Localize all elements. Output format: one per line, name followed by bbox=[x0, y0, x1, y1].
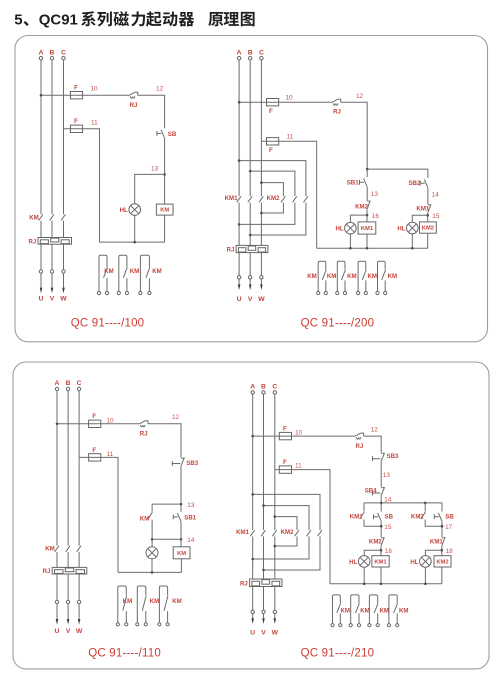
svg-text:U: U bbox=[250, 630, 255, 637]
wire pole to terminal W bbox=[63, 244, 65, 287]
wire pole below KM1 contact x=252.7 (BR) bbox=[252, 536, 254, 579]
terminal circle V (BR) bbox=[262, 610, 265, 613]
wire pole below KM1 contact x=263.5 (BR) bbox=[263, 536, 265, 579]
svg-text:KM: KM bbox=[172, 598, 181, 605]
wire rejoin self-hold branch bbox=[152, 538, 181, 540]
start pushbutton SB1 (NO) bbox=[177, 513, 181, 521]
svg-text:14: 14 bbox=[187, 537, 195, 544]
auxiliary contact KM (NO) at 117.8 (BL) bbox=[118, 586, 127, 623]
node 13 junction bbox=[180, 503, 183, 506]
terminal circle U bbox=[39, 270, 42, 273]
svg-text:5: 5 bbox=[14, 12, 22, 29]
svg-text:KM: KM bbox=[327, 273, 336, 280]
arrow to motor V bbox=[51, 288, 54, 294]
wire node 13 (TR) bbox=[366, 187, 368, 201]
svg-text:F: F bbox=[92, 447, 96, 454]
interlock contact KM2 (NC, BR left) bbox=[381, 538, 384, 546]
wire SB1 upper bbox=[366, 169, 368, 177]
wire rejoin left pair node 15 bbox=[364, 520, 381, 538]
svg-text:KM1: KM1 bbox=[416, 205, 429, 212]
crossover wire B to KM2 middle pole (BR) bbox=[264, 506, 310, 530]
svg-text:RJ: RJ bbox=[29, 238, 37, 245]
wire phase B vertical (BL) bbox=[67, 391, 69, 546]
svg-text:15: 15 bbox=[384, 524, 392, 531]
svg-text:KM: KM bbox=[130, 268, 139, 275]
arrow to motor U bbox=[40, 288, 43, 294]
wire branch to lamp HL (right) bbox=[412, 215, 427, 222]
arrow to motor U (BL) bbox=[56, 619, 59, 625]
svg-text:12: 12 bbox=[172, 414, 180, 421]
svg-text:A: A bbox=[250, 384, 255, 391]
svg-text:15: 15 bbox=[432, 213, 440, 220]
wire to node 16 bbox=[380, 546, 382, 556]
contactor KM1 main contacts bbox=[237, 196, 241, 202]
stop pushbutton SB4 (NC, BR) bbox=[381, 488, 384, 496]
wire branch to lamp HL (left) bbox=[350, 215, 367, 222]
svg-text:KM: KM bbox=[160, 208, 169, 214]
terminal circle W (BL) bbox=[77, 600, 80, 603]
wire 11 (BR) from C bbox=[275, 470, 330, 584]
wire to node 16 bbox=[366, 210, 368, 222]
svg-text:A: A bbox=[55, 380, 60, 387]
svg-text:KM: KM bbox=[140, 515, 149, 522]
svg-text:SB1: SB1 bbox=[184, 515, 196, 522]
svg-text:F: F bbox=[269, 147, 273, 154]
panel frame 1 bbox=[15, 36, 488, 342]
wire bottom rail (TL control) bbox=[100, 241, 165, 243]
panel frame 2 bbox=[13, 362, 489, 669]
svg-text:V: V bbox=[248, 296, 253, 303]
wire pole below KM1 contact x=261.4 bbox=[260, 203, 262, 246]
node 16 junction bbox=[366, 214, 369, 217]
arrow to motor W (BL) bbox=[78, 619, 81, 625]
svg-text:KM: KM bbox=[360, 608, 369, 615]
control top rail (TR) bbox=[367, 169, 428, 178]
svg-text:F: F bbox=[283, 459, 287, 466]
wire 11 horizontal from C bbox=[64, 129, 100, 242]
svg-text:SB4: SB4 bbox=[365, 488, 377, 495]
terminal circle W (BR) bbox=[273, 610, 276, 613]
wire pole below KM contact x=41 bbox=[40, 221, 42, 238]
wire phase C vertical (TL) bbox=[63, 60, 65, 214]
arrow to motor V (BR) bbox=[262, 618, 265, 624]
wire to lamp bbox=[151, 539, 153, 547]
lamp HL (BL, unlabeled) bbox=[146, 547, 158, 559]
wire coil to bottom rail bbox=[180, 559, 182, 573]
thermal relay RJ heater block (TR) bbox=[236, 245, 268, 252]
svg-text:18: 18 bbox=[446, 548, 454, 555]
svg-text:F: F bbox=[74, 118, 78, 125]
svg-text:17: 17 bbox=[445, 524, 453, 531]
self-holding contact KM1 (NO) bbox=[360, 512, 365, 519]
svg-text:RJ: RJ bbox=[333, 109, 341, 116]
wire 11 (BL) from C bbox=[79, 457, 118, 572]
svg-text:12: 12 bbox=[356, 93, 364, 100]
svg-text:U: U bbox=[55, 628, 60, 635]
wire rejoin right pair node 17 bbox=[425, 520, 442, 538]
KM2 right pole return to B (BR) bbox=[264, 536, 321, 570]
stop pushbutton SB3 (NC, BR) bbox=[381, 453, 384, 461]
node 18 junction bbox=[441, 549, 444, 552]
svg-text:KM2: KM2 bbox=[411, 513, 424, 520]
svg-text:V: V bbox=[261, 630, 266, 637]
wire branch to lamp HL (BR right) bbox=[425, 550, 441, 556]
svg-text:KM2: KM2 bbox=[422, 226, 434, 232]
svg-text:SB3: SB3 bbox=[186, 460, 198, 467]
KM2 middle pole return to A (BR) bbox=[253, 536, 309, 559]
svg-text:U: U bbox=[237, 296, 242, 303]
junction node on A bbox=[40, 94, 43, 97]
control bottom rail (TR) bbox=[317, 247, 428, 249]
start pushbutton SB (right pair) bbox=[438, 513, 442, 521]
thermal relay contact RJ NC (TR) bbox=[332, 99, 340, 102]
wire pole to terminal W (BR) bbox=[274, 587, 276, 619]
svg-text:RJ: RJ bbox=[240, 581, 248, 588]
svg-text:KM: KM bbox=[367, 273, 376, 280]
coil KM1 bbox=[358, 222, 376, 234]
auxiliary contact KM (NO) at 388.9 (BR) bbox=[389, 595, 397, 624]
thermal relay RJ heater block (BR) bbox=[250, 579, 282, 587]
start pushbutton SB (left pair) bbox=[378, 513, 382, 521]
svg-text:11: 11 bbox=[91, 119, 98, 126]
fuse F wire 10 (TR) bbox=[267, 99, 279, 106]
terminal circle U (TR) bbox=[237, 276, 240, 279]
contactor KM2 main contacts bbox=[281, 196, 285, 202]
wire phase A vertical (TL) bbox=[40, 60, 42, 214]
junction node on A (BR) bbox=[251, 435, 254, 438]
lamp HL (BR right) bbox=[420, 556, 432, 568]
svg-text:RJ: RJ bbox=[227, 247, 235, 254]
arrow to motor V (BL) bbox=[67, 619, 70, 625]
self-holding contact KM2 (NO, right pair) bbox=[421, 512, 426, 519]
wire phase C vertical (BL) bbox=[78, 391, 80, 546]
svg-text:C: C bbox=[61, 49, 66, 56]
arrow to motor U (BR) bbox=[251, 618, 254, 624]
wire 10 horizontal (TR) bbox=[239, 101, 332, 103]
svg-text:A: A bbox=[237, 49, 242, 56]
wires to bottom rail (KM1 group) bbox=[350, 234, 367, 248]
arrow to motor W bbox=[62, 288, 65, 294]
terminal circle V (BL) bbox=[66, 600, 69, 603]
wire pole below KM1 contact x=250.2 bbox=[249, 203, 251, 246]
svg-text:12: 12 bbox=[371, 427, 379, 434]
wire pole below KM contact x=52 bbox=[51, 221, 53, 238]
contactor KM main contacts bbox=[39, 214, 43, 220]
svg-text:KM: KM bbox=[104, 268, 113, 275]
node 16 junction bbox=[380, 549, 383, 552]
auxiliary contact KM (NO) at 118.8 bbox=[119, 255, 127, 291]
svg-text:RJ: RJ bbox=[130, 102, 138, 109]
svg-text:KM2: KM2 bbox=[436, 560, 448, 566]
auxiliary contact KM (NO) at 369.4 (BR) bbox=[369, 595, 377, 624]
thermal relay RJ heater block (BL) bbox=[52, 567, 87, 574]
wire pole below KM contact x=57 (BL) bbox=[56, 552, 58, 567]
auxiliary contact KM (NO) at 350.7 (BR) bbox=[351, 595, 359, 624]
svg-text:B: B bbox=[50, 49, 55, 56]
svg-text:KM: KM bbox=[340, 608, 349, 615]
svg-text:KM: KM bbox=[379, 608, 388, 615]
svg-text:13: 13 bbox=[371, 191, 379, 198]
svg-text:F: F bbox=[92, 413, 96, 420]
wires to bottom rail (BR right group) bbox=[425, 567, 441, 584]
KM2 left pole return to C (BR) bbox=[275, 536, 297, 546]
svg-text:KM2: KM2 bbox=[267, 195, 280, 202]
contactor KM main contacts (BL) bbox=[55, 546, 59, 552]
svg-text:QC 91----/100: QC 91----/100 bbox=[71, 318, 145, 330]
wire to node 15 bbox=[427, 213, 429, 222]
wire pole to terminal U bbox=[40, 244, 42, 287]
svg-text:HL: HL bbox=[349, 559, 357, 566]
svg-text:W: W bbox=[272, 630, 279, 637]
coil KM (BL) bbox=[173, 547, 190, 559]
wire node 14 bbox=[427, 188, 429, 204]
svg-text:KM2: KM2 bbox=[355, 203, 368, 210]
svg-text:12: 12 bbox=[156, 86, 164, 93]
svg-text:SB3: SB3 bbox=[387, 453, 399, 460]
junction at lamp bottom bbox=[133, 241, 136, 244]
page title text bbox=[14, 11, 254, 28]
svg-text:10: 10 bbox=[286, 95, 294, 102]
KM2 left pole return to C bbox=[261, 203, 283, 214]
svg-text:F: F bbox=[283, 426, 287, 433]
wire 11 (TR) from C bbox=[261, 141, 316, 248]
svg-text:KM: KM bbox=[123, 598, 132, 605]
svg-text:U: U bbox=[39, 296, 44, 303]
wire phase B vertical (TL) bbox=[51, 60, 53, 214]
contactor KM2 main contacts (BR) bbox=[295, 530, 299, 536]
wire SB3 to node 13 bbox=[180, 467, 182, 512]
crossover wire C to KM2 left pole (BR) bbox=[275, 517, 297, 530]
svg-text:C: C bbox=[77, 380, 82, 387]
fuse F wire 10 (BR) bbox=[279, 432, 291, 439]
svg-text:B: B bbox=[261, 384, 266, 391]
coil KM2 (BR) bbox=[434, 556, 451, 567]
svg-text:KM: KM bbox=[347, 273, 356, 280]
coil KM bbox=[156, 204, 173, 215]
svg-text:KM: KM bbox=[150, 598, 159, 605]
control rail at node 14 (BR) bbox=[364, 502, 442, 504]
wire coil to bottom rail bbox=[164, 215, 166, 242]
svg-text:14: 14 bbox=[432, 192, 440, 199]
pushbutton SB (start, NO) bbox=[161, 130, 165, 138]
svg-text:SB1: SB1 bbox=[347, 179, 359, 186]
node 14 junction bbox=[380, 502, 383, 505]
wire phase B vertical (BR) bbox=[263, 394, 265, 530]
lamp HL bbox=[129, 204, 141, 216]
wire branch to self-hold contact bbox=[152, 504, 181, 512]
svg-text:13: 13 bbox=[151, 166, 159, 173]
svg-text:16: 16 bbox=[385, 548, 393, 555]
wire to node 18 bbox=[441, 546, 443, 556]
lamp HL (KM1 side) bbox=[345, 222, 357, 234]
svg-text:KM: KM bbox=[177, 551, 186, 557]
fuse F wire 10 (BL) bbox=[89, 420, 101, 427]
fuse F (wire 11) bbox=[70, 125, 82, 132]
wire pole below KM contact x=79.1 (BL) bbox=[78, 552, 80, 567]
svg-text:KM: KM bbox=[307, 273, 316, 280]
auxiliary contact KM (NO) at 137.3 (BL) bbox=[137, 586, 146, 623]
pushbutton SB1 (NO) bbox=[364, 179, 368, 187]
svg-text:C: C bbox=[272, 384, 277, 391]
wire branch to lamp HL (BR left) bbox=[364, 550, 381, 556]
control bottom rail (BL) bbox=[118, 571, 181, 573]
wire pole to terminal V (BR) bbox=[263, 587, 265, 619]
svg-text:13: 13 bbox=[383, 472, 391, 479]
svg-text:KM: KM bbox=[399, 608, 408, 615]
terminal circle W bbox=[62, 270, 65, 273]
svg-text:16: 16 bbox=[372, 213, 380, 220]
terminal circle U (BL) bbox=[55, 600, 58, 603]
svg-text:V: V bbox=[50, 296, 55, 303]
wire 10 to node 12 bbox=[138, 95, 165, 128]
arrow to motor W (TR) bbox=[260, 284, 263, 290]
svg-text:C: C bbox=[259, 49, 264, 56]
auxiliary contact KM (NO) at 140.4 bbox=[140, 255, 149, 291]
wire pole below KM contact x=68.1 (BL) bbox=[67, 552, 69, 567]
svg-text:HL: HL bbox=[335, 226, 343, 233]
svg-text:10: 10 bbox=[295, 430, 303, 437]
interlock contact KM1 (NC) bbox=[428, 205, 431, 213]
svg-text:HL: HL bbox=[120, 207, 128, 214]
auxiliary contact KM (NO) at 332.5 (BR) bbox=[333, 595, 341, 624]
wires to bottom rail (BR left group) bbox=[364, 567, 381, 584]
wire KM contact lower bbox=[151, 520, 153, 540]
auxiliary contact KM (NO) at 337.3 (TR) bbox=[337, 261, 345, 291]
crossover wire C to KM2 left pole bbox=[261, 183, 283, 197]
svg-text:KM: KM bbox=[45, 546, 54, 553]
auxiliary contact KM (NO) at 318.2 (TR) bbox=[318, 261, 326, 291]
wire pole to terminal U (BL) bbox=[56, 574, 58, 619]
arrow to motor U (TR) bbox=[238, 284, 241, 290]
coil KM2 bbox=[420, 222, 437, 233]
contactor KM1 main contacts (BR) bbox=[250, 530, 254, 536]
terminal circle U (BR) bbox=[251, 610, 254, 613]
svg-text:KM: KM bbox=[388, 273, 397, 280]
wire phase A vertical (BL) bbox=[56, 391, 58, 546]
crossover wire A to KM2 right pole bbox=[239, 161, 306, 197]
auxiliary contact KM (NO) at 99 bbox=[99, 255, 107, 291]
pushbutton SB2 (NO) bbox=[424, 180, 428, 188]
thermal relay RJ heater block (TL) bbox=[38, 238, 72, 245]
svg-text:10: 10 bbox=[107, 417, 115, 424]
interlock contact KM1 (NC, BR right) bbox=[442, 538, 445, 546]
wire 10 horizontal (BL) bbox=[57, 423, 140, 425]
wire lamp to bottom rail bbox=[151, 559, 153, 573]
control bottom rail (BR) bbox=[330, 583, 442, 585]
KM2 middle pole return to A bbox=[239, 203, 295, 225]
svg-text:SB: SB bbox=[385, 513, 394, 520]
fuse F wire 11 (TR) bbox=[267, 138, 279, 145]
svg-text:F: F bbox=[269, 108, 273, 115]
svg-text:10: 10 bbox=[91, 85, 99, 92]
svg-text:RJ: RJ bbox=[140, 431, 148, 438]
wire phase C vertical (TR) bbox=[260, 60, 262, 196]
wire SB4 to node 14 bbox=[380, 496, 382, 512]
junction node on A (BL) bbox=[56, 423, 59, 426]
crossover wire A to KM2 right pole (BR) bbox=[253, 494, 320, 530]
wire to corner 12 (BR) bbox=[364, 436, 382, 453]
lamp HL (BR left) bbox=[358, 556, 370, 568]
wire pole to terminal W (BL) bbox=[78, 574, 80, 619]
svg-text:11: 11 bbox=[107, 451, 114, 458]
svg-text:SB2: SB2 bbox=[408, 180, 420, 187]
stop pushbutton SB3 (NC) bbox=[181, 458, 184, 466]
node 15 junction bbox=[426, 214, 429, 217]
lamp HL (KM2 side) bbox=[407, 222, 419, 234]
wire pole to terminal V (BL) bbox=[67, 574, 69, 619]
wire pole to terminal V bbox=[51, 244, 53, 287]
svg-text:RJ: RJ bbox=[356, 443, 364, 450]
interlock contact KM2 (NC) bbox=[367, 201, 370, 209]
svg-text:KM1: KM1 bbox=[350, 513, 363, 520]
svg-text:HL: HL bbox=[397, 225, 405, 232]
svg-text:11: 11 bbox=[287, 134, 294, 141]
self-holding contact KM (NO) bbox=[148, 512, 153, 519]
svg-text:W: W bbox=[60, 296, 67, 303]
thermal relay contact RJ NC (BR) bbox=[355, 433, 363, 436]
wire pole to terminal U (TR) bbox=[238, 253, 240, 285]
terminal circle W (TR) bbox=[260, 276, 263, 279]
fuse F wire 11 (BL) bbox=[89, 454, 101, 461]
svg-text:W: W bbox=[258, 296, 265, 303]
arrow to motor W (BR) bbox=[274, 618, 277, 624]
svg-text:QC 91----/210: QC 91----/210 bbox=[301, 647, 375, 659]
svg-text:QC91: QC91 bbox=[39, 12, 78, 29]
svg-text:W: W bbox=[76, 628, 83, 635]
svg-text:KM2: KM2 bbox=[369, 538, 382, 545]
svg-text:SB: SB bbox=[445, 513, 454, 520]
KM2 right pole return to B bbox=[250, 203, 306, 236]
terminal circle V bbox=[50, 270, 53, 273]
wire phase A vertical (BR) bbox=[252, 394, 254, 530]
wire pole below KM1 contact x=239.1 bbox=[238, 203, 240, 246]
svg-text:KM1: KM1 bbox=[374, 560, 387, 566]
svg-text:11: 11 bbox=[295, 463, 302, 470]
svg-text:KM1: KM1 bbox=[430, 538, 443, 545]
svg-text:KM2: KM2 bbox=[281, 529, 294, 536]
svg-text:SB: SB bbox=[168, 131, 177, 138]
wire phase B vertical (TR) bbox=[249, 60, 251, 196]
svg-text:B: B bbox=[248, 49, 253, 56]
wire pole to terminal W (TR) bbox=[260, 253, 262, 285]
wire 10 horizontal control feed bbox=[41, 94, 129, 96]
svg-text:HL: HL bbox=[410, 559, 418, 566]
thermal relay contact RJ NC (BL) bbox=[140, 421, 148, 424]
svg-text:QC 91----/200: QC 91----/200 bbox=[301, 318, 375, 330]
junction node on A (TR) bbox=[238, 101, 241, 104]
fuse F wire 11 (BR) bbox=[279, 466, 291, 473]
wire SB to node 13 bbox=[164, 138, 166, 204]
terminal circle V (TR) bbox=[249, 276, 252, 279]
svg-text:B: B bbox=[66, 380, 71, 387]
svg-text:KM: KM bbox=[29, 214, 38, 221]
svg-text:13: 13 bbox=[187, 502, 195, 509]
auxiliary contact KM (NO) at 377.5 (TR) bbox=[378, 261, 386, 291]
wire branch to lamp HL bbox=[135, 174, 165, 203]
wires to bottom rail (KM2 group) bbox=[412, 233, 427, 248]
wire left pair feeds bbox=[364, 503, 442, 512]
crossover wire B to KM2 middle pole bbox=[250, 171, 295, 196]
coil KM1 (BR) bbox=[372, 556, 389, 567]
node 13 junction bbox=[163, 173, 166, 176]
arrow to motor V (TR) bbox=[249, 284, 252, 290]
svg-text:KM1: KM1 bbox=[236, 529, 249, 536]
svg-text:V: V bbox=[66, 628, 71, 635]
wire SB1 lower to node 14 bbox=[180, 522, 182, 547]
wire to corner 12 (BL) bbox=[148, 424, 181, 458]
svg-text:KM1: KM1 bbox=[225, 195, 238, 202]
fuse F (wire 10) bbox=[70, 92, 82, 99]
